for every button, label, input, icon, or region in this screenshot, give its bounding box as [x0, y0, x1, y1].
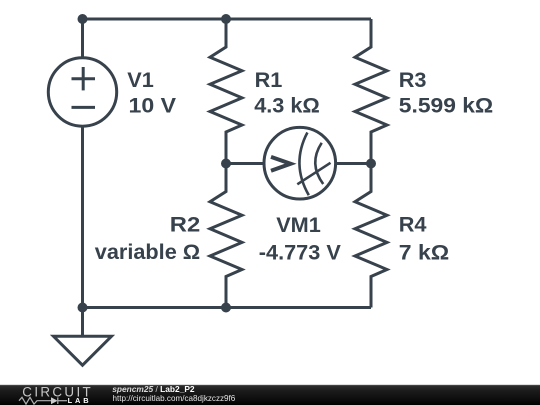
svg-text:LAB: LAB — [68, 396, 92, 405]
svg-text:5.599 kΩ: 5.599 kΩ — [399, 93, 493, 118]
svg-text:VM1: VM1 — [276, 212, 321, 237]
svg-text:7 kΩ: 7 kΩ — [399, 239, 449, 264]
svg-text:-4.773 V: -4.773 V — [259, 239, 342, 264]
svg-text:10 V: 10 V — [129, 93, 177, 118]
svg-text:V1: V1 — [127, 67, 154, 92]
svg-text:R2: R2 — [170, 212, 200, 237]
svg-text:R1: R1 — [255, 67, 283, 92]
svg-text:R3: R3 — [399, 67, 427, 92]
svg-text:R4: R4 — [399, 212, 427, 237]
svg-text:spencm25 / Lab2_P2: spencm25 / Lab2_P2 — [112, 384, 195, 394]
svg-text:variable Ω: variable Ω — [95, 239, 200, 264]
svg-text:http://circuitlab.com/ca8djkzc: http://circuitlab.com/ca8djkzczz9f6 — [113, 394, 236, 403]
svg-text:4.3 kΩ: 4.3 kΩ — [254, 93, 320, 118]
